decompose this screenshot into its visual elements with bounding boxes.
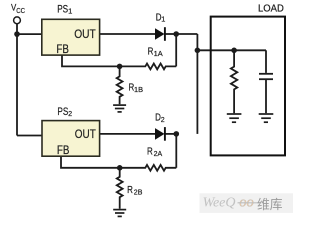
node load rail junction — [231, 48, 237, 54]
load resistor — [231, 50, 237, 113]
ground below capacitor — [259, 114, 274, 122]
svg-text:R: R — [127, 184, 133, 195]
svg-text:1: 1 — [68, 6, 72, 15]
svg-text:OUT: OUT — [74, 28, 96, 41]
resistor R2B — [117, 168, 123, 209]
watermark box — [200, 193, 294, 213]
svg-text:2B: 2B — [134, 187, 143, 196]
node FB2 junction — [117, 165, 123, 171]
node FB1 junction — [117, 64, 123, 70]
watermark strikethrough — [238, 202, 259, 204]
svg-text:2A: 2A — [154, 149, 163, 158]
svg-text:FB: FB — [56, 43, 69, 56]
ground below load resistor — [227, 114, 242, 122]
capacitor C plates — [259, 74, 273, 79]
resistor R2A — [120, 165, 177, 171]
node Vcc terminal — [14, 17, 21, 24]
svg-text:OUT: OUT — [75, 128, 96, 141]
watermark WeeQoo text — [203, 195, 254, 211]
svg-text:PS: PS — [57, 4, 68, 16]
wire PS1 input — [17, 33, 42, 35]
wire FB1 from pin to node — [62, 55, 120, 66]
resistor R1A — [120, 64, 177, 70]
capacitor C load wire top — [265, 50, 267, 73]
wire PS1 output — [100, 33, 156, 35]
svg-text:PS: PS — [57, 106, 68, 118]
wire D2 cathode to node — [165, 133, 177, 135]
svg-text:2: 2 — [68, 109, 72, 118]
diode D1 — [155, 27, 165, 41]
power supply PS2 box — [42, 121, 100, 157]
wire D1 cathode to node — [165, 33, 177, 35]
power supply PS1 box — [42, 19, 100, 55]
load box — [211, 17, 285, 156]
svg-text:FB: FB — [57, 144, 70, 157]
svg-text:1A: 1A — [154, 49, 163, 58]
wire load rail — [197, 49, 266, 51]
svg-text:CC: CC — [16, 7, 25, 15]
node D2 output junction — [174, 131, 180, 137]
svg-text:WeeQ: WeeQ — [203, 196, 236, 211]
wire node to common rail corner — [176, 33, 197, 35]
resistor R1B — [117, 66, 123, 104]
svg-text:维库: 维库 — [257, 197, 283, 212]
svg-text:1B: 1B — [134, 85, 143, 94]
wire PS2 output — [100, 133, 156, 135]
wire common vertical rail — [196, 34, 198, 134]
node D1 output junction — [173, 31, 179, 37]
svg-text:LOAD: LOAD — [258, 3, 284, 14]
capacitor C wire bottom — [265, 80, 267, 113]
node common rail junction — [195, 48, 201, 54]
svg-text:2: 2 — [161, 115, 165, 124]
wire Vcc vertical bus — [16, 24, 18, 136]
wire FB2 from pin to node — [61, 156, 120, 168]
ground below R2B — [113, 210, 126, 217]
ground below R1B — [113, 105, 126, 112]
diode D2 — [155, 127, 165, 141]
node Vcc junction — [14, 31, 20, 37]
wire D1 node down to R1A — [175, 34, 177, 66]
svg-text:R: R — [147, 146, 153, 157]
wire PS2 input — [17, 135, 42, 137]
wire D2 node down to R2A — [175, 134, 177, 168]
svg-text:1: 1 — [161, 15, 165, 24]
